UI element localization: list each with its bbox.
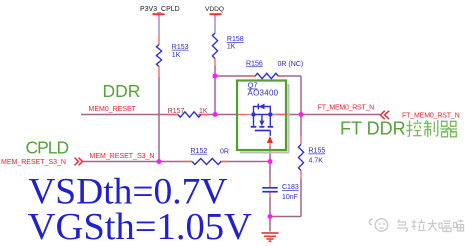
svg-text:1K: 1K xyxy=(227,44,236,51)
svg-text:0R (NC): 0R (NC) xyxy=(278,61,304,68)
svg-text:FT DDR: FT DDR xyxy=(340,119,406,139)
svg-text:AO3400: AO3400 xyxy=(248,89,279,98)
svg-text:R152: R152 xyxy=(191,148,208,155)
svg-text:VGSth=1.05V: VGSth=1.05V xyxy=(28,206,252,247)
svg-text:CPLD: CPLD xyxy=(26,137,69,157)
svg-text:R157: R157 xyxy=(168,108,185,115)
svg-text:1K: 1K xyxy=(172,52,181,59)
svg-text:4.7K: 4.7K xyxy=(309,157,324,164)
svg-text:FT_MEM0_RST_N: FT_MEM0_RST_N xyxy=(318,104,374,111)
svg-text:1K: 1K xyxy=(199,108,208,115)
svg-text:C183: C183 xyxy=(282,184,299,191)
svg-text:R155: R155 xyxy=(309,148,326,155)
svg-text:R156: R156 xyxy=(246,60,263,67)
svg-text:FT_MEM0_RST_N: FT_MEM0_RST_N xyxy=(402,112,460,119)
svg-text:R153: R153 xyxy=(172,44,189,51)
svg-text:DDR: DDR xyxy=(103,81,141,101)
svg-text:MEM0_RESET: MEM0_RESET xyxy=(89,106,137,113)
svg-text:R158: R158 xyxy=(227,36,244,43)
svg-text:MEM_RESET_S3_N: MEM_RESET_S3_N xyxy=(90,153,155,160)
svg-text:10nF: 10nF xyxy=(282,194,298,201)
svg-text:0R: 0R xyxy=(220,148,229,155)
svg-text:MEM_RESET_S3_N: MEM_RESET_S3_N xyxy=(1,159,66,166)
svg-text:P3V3_CPLD: P3V3_CPLD xyxy=(140,6,180,13)
svg-text:VDDQ: VDDQ xyxy=(205,6,224,13)
